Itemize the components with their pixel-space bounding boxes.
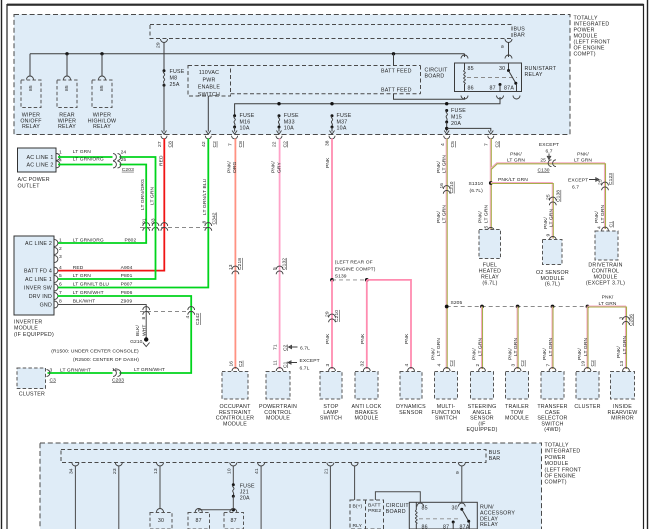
module drivetrain control module box <box>586 231 625 287</box>
svg-text:C210: C210 <box>449 181 455 193</box>
svg-text:C1: C1 <box>282 361 288 368</box>
svg-text:LT GRN: LT GRN <box>442 205 448 223</box>
fuse M15 20A <box>445 108 466 127</box>
connector C218 cavity 13 on PNK/ORG <box>228 258 243 275</box>
svg-text:5: 5 <box>59 273 62 279</box>
svg-text:M37: M37 <box>337 119 348 125</box>
svg-text:87A: 87A <box>504 86 514 92</box>
svg-text:PNK/: PNK/ <box>577 348 583 360</box>
svg-text:PNK/: PNK/ <box>436 211 442 223</box>
wire BLK/WHT pin 8 to ground G210 <box>58 305 148 338</box>
svg-text:25: 25 <box>545 194 551 200</box>
svg-text:C2: C2 <box>494 141 500 148</box>
svg-text:M15: M15 <box>451 115 462 121</box>
module powertrain control module <box>259 372 297 422</box>
svg-text:LT GRN: LT GRN <box>507 158 525 164</box>
node BATT FEED lower dashed <box>231 87 421 93</box>
svg-text:C218: C218 <box>237 258 243 270</box>
svg-text:DRV IND: DRV IND <box>29 294 52 300</box>
svg-text:PNK: PNK <box>325 157 331 168</box>
svg-text:LT GRN: LT GRN <box>477 338 483 356</box>
svg-text:85: 85 <box>64 85 70 91</box>
wire PNK/LT GRN S205 to trailer tow module <box>507 307 526 372</box>
svg-text:AC LINE 1: AC LINE 1 <box>25 277 52 283</box>
svg-text:BOARD: BOARD <box>386 509 406 515</box>
wire PNK/LT GRN S205 to inside rearview mirror via C206 <box>588 295 635 371</box>
wire LT GRN ac line 1 pin 1 cavity 24 <box>58 149 156 279</box>
svg-text:M8: M8 <box>170 76 178 82</box>
svg-text:BATT: BATT <box>368 502 381 508</box>
svg-text:RELAY: RELAY <box>525 72 543 78</box>
svg-text:8: 8 <box>141 317 147 320</box>
svg-text:BOARD: BOARD <box>425 74 445 80</box>
svg-text:LT GRN/LT BLU: LT GRN/LT BLU <box>73 282 110 288</box>
svg-text:(R2500: CENTER OF DASH): (R2500: CENTER OF DASH) <box>73 357 139 363</box>
svg-text:4: 4 <box>59 157 62 163</box>
svg-text:(6.7L): (6.7L) <box>482 280 497 286</box>
wire stub wiper relay 1 <box>27 54 34 80</box>
svg-text:B(+): B(+) <box>353 504 363 510</box>
svg-text:C2: C2 <box>520 360 526 367</box>
svg-text:86: 86 <box>422 524 428 529</box>
svg-text:10A: 10A <box>284 126 294 132</box>
pin 23 wire <box>112 463 123 529</box>
svg-text:PNK/: PNK/ <box>226 161 232 173</box>
svg-text:25: 25 <box>598 179 604 185</box>
svg-text:4: 4 <box>185 316 191 319</box>
svg-text:MODULE: MODULE <box>545 461 569 467</box>
svg-text:M33: M33 <box>284 119 295 125</box>
svg-text:C2: C2 <box>449 360 455 367</box>
wire bus bar to B(+) box <box>351 463 358 501</box>
svg-text:4: 4 <box>440 143 446 146</box>
svg-text:FUSE: FUSE <box>284 113 299 119</box>
svg-text:LT GRN: LT GRN <box>622 336 628 354</box>
connector C210 cavity 16 <box>439 181 455 194</box>
svg-text:S1310: S1310 <box>469 181 484 187</box>
svg-text:C132: C132 <box>281 258 287 270</box>
svg-text:MODULE: MODULE <box>14 326 38 332</box>
pin 11 C1 except 6.7L note <box>273 358 320 372</box>
fuse M16 10A <box>233 113 255 132</box>
svg-text:CLUSTER: CLUSTER <box>574 404 600 410</box>
svg-text:10A: 10A <box>337 126 347 132</box>
module anti lock brakes module <box>352 372 382 422</box>
svg-text:13: 13 <box>619 361 625 367</box>
svg-text:AC LINE 2: AC LINE 2 <box>26 163 53 169</box>
svg-text:INTEGRATED: INTEGRATED <box>545 449 581 455</box>
wire LT GRN/WHT pin 7 loop to cluster <box>48 296 192 373</box>
connector line C342 lower dashed <box>140 307 201 325</box>
pin 9 wire to run/accessory relay 30 <box>455 463 466 503</box>
svg-text:19: 19 <box>580 361 586 367</box>
bus bar bottom <box>61 450 501 463</box>
circuit board label bottom <box>366 500 410 529</box>
svg-text:30: 30 <box>158 518 164 524</box>
svg-text:RED: RED <box>73 265 84 271</box>
svg-text:41: 41 <box>254 468 260 474</box>
svg-text:6.7L: 6.7L <box>300 366 310 372</box>
svg-text:FUSE: FUSE <box>451 108 466 114</box>
svg-text:LT GRN: LT GRN <box>442 155 448 173</box>
svg-text:PNK/: PNK/ <box>507 348 513 360</box>
svg-text:87: 87 <box>196 518 202 524</box>
svg-text:C1: C1 <box>609 221 615 228</box>
svg-text:13: 13 <box>228 264 234 270</box>
svg-text:10A: 10A <box>240 126 250 132</box>
module cluster box left <box>17 367 56 397</box>
wire PNK/LT GRN from pin 4 C5 down to splice S205 <box>436 139 448 370</box>
svg-text:INVER SW: INVER SW <box>24 285 52 291</box>
svg-text:BUS: BUS <box>514 27 526 33</box>
wire PNK/LT GRN S205 to transfer case selector switch <box>542 307 556 372</box>
svg-text:P801: P801 <box>121 273 133 279</box>
switch S1 110VAC pwr enable switch <box>188 66 231 132</box>
box B(+) BATT PRE2 RLY <box>350 500 384 529</box>
svg-text:PNK/LT GRN: PNK/LT GRN <box>498 177 528 183</box>
wire PNK/ORG from pin 7 to occupant restraint module <box>226 139 238 370</box>
wire LT GRN/ORG ac line 2 pin 4 cavity 25 <box>58 157 147 243</box>
svg-text:16: 16 <box>439 183 445 189</box>
svg-text:LT GRN: LT GRN <box>513 338 519 356</box>
wire RED from pin 27 to inverter pin 4 <box>58 139 165 271</box>
svg-text:INVERTER: INVERTER <box>14 319 42 325</box>
fuse M33 10A <box>278 113 300 132</box>
svg-text:(6.7L): (6.7L) <box>470 188 484 194</box>
svg-text:J21: J21 <box>240 490 249 496</box>
svg-text:BUS: BUS <box>489 450 501 456</box>
svg-text:20A: 20A <box>451 121 461 127</box>
svg-text:EQUIPPED): EQUIPPED) <box>466 427 497 433</box>
svg-text:1: 1 <box>59 238 62 244</box>
svg-text:BATT FEED: BATT FEED <box>381 68 412 74</box>
svg-text:5: 5 <box>272 267 278 270</box>
svg-text:AC LINE 1: AC LINE 1 <box>26 155 53 161</box>
svg-text:C138: C138 <box>556 190 562 202</box>
pin 29 on bus bar <box>156 39 168 70</box>
wire branch S1310 to C138 and O2 sensor module <box>491 177 554 238</box>
wire top bus horizontal <box>30 53 465 55</box>
svg-text:BAR: BAR <box>514 33 526 39</box>
svg-text:85: 85 <box>422 505 428 511</box>
exit pin 4 C5 <box>440 131 456 148</box>
svg-text:COMPT): COMPT) <box>545 480 567 486</box>
fuse M37 10A <box>331 113 352 132</box>
splice S205 dashed line <box>445 300 590 308</box>
ground G210 <box>51 337 149 363</box>
wire PNK/LT GRN S205 to steering angle sensor <box>472 307 486 372</box>
svg-text:PNK/: PNK/ <box>543 217 549 229</box>
svg-text:LT GRN/WHT: LT GRN/WHT <box>60 367 91 373</box>
svg-text:BATT FD 4: BATT FD 4 <box>24 268 52 274</box>
svg-text:87A: 87A <box>460 525 470 529</box>
pin 4 RED A904 <box>59 265 133 271</box>
relay U4 run/accessory delay relay <box>409 502 515 529</box>
svg-text:3: 3 <box>50 367 53 373</box>
svg-text:OF ENGINE: OF ENGINE <box>545 474 576 480</box>
svg-text:3: 3 <box>510 364 516 367</box>
module inside rearview mirror <box>608 372 638 422</box>
svg-text:2: 2 <box>475 364 481 367</box>
svg-text:OUTLET: OUTLET <box>18 184 41 190</box>
svg-text:C342: C342 <box>212 212 218 224</box>
svg-text:3: 3 <box>59 254 62 260</box>
module U1 TIPM top box (Totally Integrated Power Module) <box>14 15 570 135</box>
svg-text:C8: C8 <box>168 141 174 148</box>
wire stub wiper relay 3 <box>99 54 106 80</box>
svg-text:MODULE: MODULE <box>266 416 290 422</box>
svg-text:85: 85 <box>99 85 105 91</box>
svg-text:42: 42 <box>201 141 207 147</box>
pin labels inverter 1 2 3 <box>59 237 137 259</box>
svg-text:34: 34 <box>68 468 74 474</box>
svg-text:FUSE: FUSE <box>170 69 185 75</box>
svg-text:C5: C5 <box>450 141 456 148</box>
svg-text:MIRROR: MIRROR <box>611 416 634 422</box>
svg-text:CLUSTER: CLUSTER <box>19 392 45 398</box>
svg-text:PNK: PNK <box>404 333 410 344</box>
pin 21 wire <box>323 463 334 529</box>
label PNK/LT GRN left of C130 <box>507 152 525 164</box>
pin 34 wire <box>68 463 79 529</box>
exit pin 22 C2 <box>272 131 289 148</box>
svg-text:FUSE: FUSE <box>240 113 255 119</box>
svg-text:9: 9 <box>500 45 506 48</box>
wire LT GRN/LT BLU from pin 42 to inverter pin 6 <box>58 139 209 288</box>
svg-text:M16: M16 <box>240 119 251 125</box>
wire PNK S139 to dynamics sensor <box>367 280 415 371</box>
svg-text:22: 22 <box>272 141 278 147</box>
svg-text:85: 85 <box>28 85 34 91</box>
svg-text:20A: 20A <box>240 496 250 502</box>
svg-text:86: 86 <box>468 86 474 92</box>
svg-text:LT GRN: LT GRN <box>150 187 156 205</box>
wire PNK S139 to anti lock brakes module <box>360 280 371 371</box>
svg-text:LT GRN/ORG: LT GRN/ORG <box>73 237 104 243</box>
pin 13 wire to relay 30 box <box>153 463 164 513</box>
svg-text:P802: P802 <box>125 237 137 243</box>
svg-text:FUSE: FUSE <box>337 113 352 119</box>
svg-text:SWITCH: SWITCH <box>320 416 342 422</box>
module cluster bottom <box>574 372 600 411</box>
svg-text:CIRCUIT: CIRCUIT <box>425 67 449 73</box>
svg-text:SWITCH: SWITCH <box>435 416 457 422</box>
svg-text:(IF EQUIPPED): (IF EQUIPPED) <box>14 332 54 338</box>
svg-text:C130: C130 <box>538 168 550 174</box>
svg-text:EXCEPT: EXCEPT <box>300 358 320 364</box>
svg-text:C210: C210 <box>334 310 340 322</box>
svg-text:PNK/: PNK/ <box>271 161 277 173</box>
svg-text:MODULE: MODULE <box>223 421 247 427</box>
label PNK/LT GRN above drivetrain <box>594 205 614 231</box>
svg-text:C123: C123 <box>608 173 614 185</box>
relay contact box 87 second <box>224 513 244 529</box>
svg-text:C203: C203 <box>122 167 134 173</box>
wire batt feed 2 to relay pin 86 <box>394 94 465 100</box>
svg-text:13: 13 <box>153 468 159 474</box>
svg-text:11: 11 <box>273 360 279 365</box>
wire circuit board to relay coil <box>375 492 420 503</box>
bus bar top <box>150 25 525 39</box>
pin 71 C2 6.7L note <box>273 344 311 351</box>
svg-text:RUN/START: RUN/START <box>525 66 557 72</box>
exit pin 38 <box>325 131 335 147</box>
label PNK/LT GRN right of C130 <box>574 152 592 164</box>
svg-text:SENSOR: SENSOR <box>399 410 423 416</box>
svg-text:AC LINE 2: AC LINE 2 <box>25 241 52 247</box>
svg-text:9: 9 <box>455 471 461 474</box>
relay U2 run/start relay <box>455 63 557 92</box>
pin 85 arc above relay <box>461 54 468 59</box>
svg-text:LT GRN: LT GRN <box>436 338 442 356</box>
svg-text:PNK: PNK <box>360 333 366 344</box>
svg-text:85: 85 <box>468 66 474 72</box>
svg-text:ENGINE COMPT): ENGINE COMPT) <box>335 267 376 273</box>
svg-text:16: 16 <box>228 361 234 367</box>
svg-text:30: 30 <box>499 66 505 72</box>
svg-text:7: 7 <box>545 364 551 367</box>
connector C138 cavity 25 <box>543 190 562 240</box>
connector C130 cavity 25 <box>538 158 557 174</box>
module dynamics sensor <box>396 372 426 416</box>
svg-text:FUSE: FUSE <box>240 483 255 489</box>
svg-text:BAR: BAR <box>489 456 501 462</box>
svg-text:PNK/: PNK/ <box>602 295 614 301</box>
svg-text:27: 27 <box>157 141 163 147</box>
svg-text:21: 21 <box>323 468 329 474</box>
svg-text:(LEFT FRONT: (LEFT FRONT <box>545 467 582 473</box>
svg-text:POWER: POWER <box>545 455 566 461</box>
svg-text:S205: S205 <box>451 300 463 306</box>
svg-text:RELAY: RELAY <box>58 124 76 130</box>
pin 4 C2 into multi-function switch <box>431 338 455 371</box>
svg-text:LT GRN/ORG: LT GRN/ORG <box>73 157 104 163</box>
svg-text:25A: 25A <box>170 82 180 88</box>
svg-text:(4WD): (4WD) <box>544 427 560 433</box>
svg-text:C3: C3 <box>50 377 57 383</box>
svg-text:PNK/: PNK/ <box>436 161 442 173</box>
svg-text:C342: C342 <box>195 313 201 325</box>
svg-text:3: 3 <box>325 364 331 367</box>
svg-text:32: 32 <box>360 361 366 367</box>
svg-text:PNK/: PNK/ <box>616 346 622 358</box>
label TIPM1 name text <box>574 16 611 58</box>
svg-text:29: 29 <box>325 311 331 317</box>
wire stub wiper relay 2 <box>64 54 71 80</box>
relay K2 rear wiper relay <box>57 80 77 130</box>
svg-text:LT GRN: LT GRN <box>483 205 489 223</box>
svg-text:LT GRN: LT GRN <box>574 158 592 164</box>
svg-text:9: 9 <box>546 234 552 237</box>
svg-text:C203: C203 <box>112 377 124 383</box>
svg-text:2: 2 <box>59 246 62 252</box>
svg-text:RELAY: RELAY <box>93 124 111 130</box>
pin 6 LT GRN/LT BLU P807 <box>59 282 133 288</box>
svg-text:CIRCUIT: CIRCUIT <box>386 503 410 509</box>
svg-text:WHT: WHT <box>142 325 148 336</box>
pin 8 BLK/WHT Z909 <box>59 299 132 305</box>
svg-text:110VAC: 110VAC <box>199 70 219 76</box>
svg-text:A/C POWER: A/C POWER <box>18 177 50 183</box>
svg-text:RELAY: RELAY <box>22 124 40 130</box>
svg-text:PNK/: PNK/ <box>577 152 589 158</box>
svg-text:71: 71 <box>273 344 279 350</box>
splice S139 <box>330 260 376 282</box>
svg-text:18: 18 <box>112 367 118 373</box>
fuse M8 25A <box>163 69 185 132</box>
svg-text:ORG: ORG <box>232 161 238 173</box>
svg-text:7: 7 <box>484 143 490 146</box>
pin 41 wire <box>254 463 265 529</box>
svg-text:4: 4 <box>436 364 442 367</box>
svg-text:3: 3 <box>619 317 625 320</box>
svg-text:4: 4 <box>59 265 62 271</box>
svg-text:C206: C206 <box>628 314 634 326</box>
svg-text:C2: C2 <box>282 344 288 351</box>
relay K3 wiper high/low relay <box>88 80 117 130</box>
relay contact box 87 first <box>188 513 210 529</box>
wire bus2 fuse feed horizontal <box>235 97 500 115</box>
svg-text:8: 8 <box>202 221 208 224</box>
svg-text:(R1500: UNDER CENTER CONSOLE): (R1500: UNDER CENTER CONSOLE) <box>51 348 139 354</box>
svg-text:C8: C8 <box>238 141 244 148</box>
relay contact box 30 <box>150 513 172 529</box>
svg-text:6.7L: 6.7L <box>300 346 310 352</box>
svg-text:MODULE: MODULE <box>355 416 379 422</box>
wire batt feed drop from top bus <box>393 54 395 66</box>
svg-text:24: 24 <box>121 150 127 156</box>
svg-text:GRY: GRY <box>276 162 282 173</box>
svg-text:PNK: PNK <box>325 333 331 344</box>
wire PNK/LT GRN from pin 7 C2 down to splice S1310 <box>478 139 492 230</box>
svg-text:P807: P807 <box>121 282 133 288</box>
pin 30 arc and wire to bus bar pin 9 <box>500 39 512 59</box>
svg-text:LT GRN: LT GRN <box>600 205 606 223</box>
svg-text:(EXCEPT 3.7L): (EXCEPT 3.7L) <box>586 281 625 287</box>
svg-text:LT GRN: LT GRN <box>73 149 91 155</box>
wire PNK/GRY from pin 22 to powertrain module <box>271 139 283 370</box>
svg-text:LT GRN/ORG: LT GRN/ORG <box>140 179 146 210</box>
svg-text:BLK/WHT: BLK/WHT <box>73 299 95 305</box>
svg-text:Z909: Z909 <box>121 299 133 305</box>
svg-text:7: 7 <box>227 143 233 146</box>
connector C123 cavity 25 <box>598 173 614 191</box>
svg-text:RED: RED <box>158 155 164 166</box>
module inverter box <box>14 236 58 338</box>
svg-text:23: 23 <box>112 468 118 474</box>
svg-text:25: 25 <box>540 158 546 164</box>
wire branch to C130 and drivetrain module <box>490 163 605 229</box>
svg-text:EXCEPT: EXCEPT <box>539 142 559 148</box>
exit pin 42 C2 <box>201 131 218 148</box>
module occupant restraint controller module <box>216 372 254 428</box>
svg-text:(LEFT REAR OF: (LEFT REAR OF <box>335 260 373 266</box>
module steering angle sensor <box>466 372 497 434</box>
svg-text:COMPT): COMPT) <box>574 52 596 58</box>
svg-text:PNK/: PNK/ <box>478 211 484 223</box>
wire fuse J21 output split to 87 87 boxes <box>195 496 237 512</box>
svg-text:87: 87 <box>490 86 496 92</box>
relay K1 wiper on/off relay <box>20 80 42 130</box>
svg-text:PNK/: PNK/ <box>594 211 600 223</box>
svg-text:C2: C2 <box>238 360 244 367</box>
module multi-function switch <box>431 372 460 422</box>
svg-text:6: 6 <box>59 282 62 288</box>
wire PNK/LT GRN S205 to cluster <box>577 307 596 372</box>
svg-text:EXCEPT: EXCEPT <box>568 178 588 184</box>
wire PNK from pin 38 to splice S139 <box>325 139 332 280</box>
svg-text:LT GRN: LT GRN <box>73 273 91 279</box>
